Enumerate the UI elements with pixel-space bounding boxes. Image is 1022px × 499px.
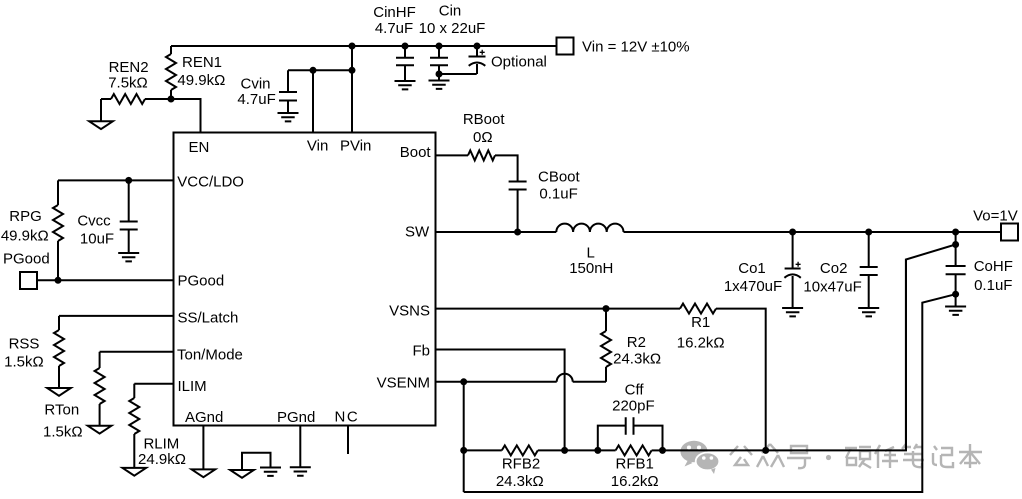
node: top rail / PVin: [349, 43, 356, 50]
terminal Vin: [557, 38, 574, 55]
wire: VSNS pin: [436, 308, 681, 310]
svg-text:1.5kΩ: 1.5kΩ: [4, 354, 44, 371]
node: Optional cap top: [474, 43, 481, 50]
wire: hop to R2 bottom: [573, 381, 606, 383]
svg-text:Cvcc: Cvcc: [77, 213, 111, 230]
capacitor Cff: [598, 417, 663, 450]
ground tie (AGnd-PGnd bracket): [230, 470, 254, 478]
svg-text:0.1uF: 0.1uF: [974, 277, 1012, 294]
svg-text:1x470uF: 1x470uF: [724, 278, 782, 295]
svg-text:SW: SW: [405, 224, 430, 241]
wire: Vin pin: [312, 70, 314, 132]
capacitor Co2: [868, 232, 870, 267]
node: Cin top: [436, 43, 443, 50]
watermark text (公众号·硬件笔记本 drawn as strokes): [730, 444, 982, 468]
svg-text:CinHF: CinHF: [373, 4, 416, 21]
node: Cvcc junction: [125, 177, 132, 184]
capacitor Cvin: [287, 70, 289, 92]
svg-text:AGnd: AGnd: [185, 409, 223, 426]
ground (Co1): [782, 308, 803, 316]
svg-text:PGood: PGood: [3, 251, 50, 268]
svg-text:Boot: Boot: [400, 144, 432, 161]
svg-text:VSNS: VSNS: [389, 303, 430, 320]
node: divider bottom-left: [460, 447, 467, 454]
svg-text:Vin = 12V ±10%: Vin = 12V ±10%: [582, 39, 690, 56]
svg-text:RLIM: RLIM: [143, 436, 179, 453]
svg-text:7.5kΩ: 7.5kΩ: [108, 75, 148, 92]
svg-text:Cin: Cin: [439, 3, 462, 20]
ground (Cin): [438, 74, 440, 81]
ground (Cvin): [278, 113, 299, 121]
node: Cin bottom junction: [436, 71, 443, 78]
ground (CoHF): [955, 294, 957, 306]
svg-text:24.3kΩ: 24.3kΩ: [613, 351, 661, 368]
node: Cff right: [659, 447, 666, 454]
svg-text:L: L: [587, 245, 595, 262]
wire: Vin top rail: [171, 45, 557, 47]
capacitor CinHF: [404, 46, 406, 58]
resistor RBoot: [468, 150, 495, 160]
ground (PGnd): [290, 467, 311, 475]
wire: VSENM pin: [436, 381, 557, 383]
node: EN junction: [168, 96, 175, 103]
svg-text:24.9kΩ: 24.9kΩ: [138, 451, 186, 468]
svg-text:VSENM: VSENM: [377, 375, 430, 392]
wire: Vo rail: [624, 231, 1002, 233]
svg-text:0Ω: 0Ω: [473, 129, 493, 146]
ground (Co2): [858, 308, 879, 316]
wire: ILIM pin: [134, 383, 173, 385]
node: Vo sense: [952, 229, 959, 236]
wire: Cin bottom to Optional cap: [439, 73, 477, 75]
resistor RLIM: [133, 384, 135, 398]
svg-text:49.9kΩ: 49.9kΩ: [1, 228, 49, 245]
wire: Ton/Mode pin: [100, 351, 174, 353]
wire: junction to EN pin: [171, 99, 201, 133]
svg-text:CoHF: CoHF: [974, 258, 1013, 275]
svg-text:REN1: REN1: [182, 54, 222, 71]
resistor R1: [680, 304, 716, 314]
svg-text:1.5kΩ: 1.5kΩ: [43, 424, 83, 441]
node: below Vo sense: [952, 241, 959, 248]
svg-text:10x47uF: 10x47uF: [803, 279, 861, 296]
node: CinHF top: [402, 43, 409, 50]
inductor L: [556, 224, 623, 232]
svg-text:R2: R2: [627, 334, 646, 351]
svg-text:EN: EN: [189, 139, 210, 156]
node: R1 bottom junction: [762, 447, 769, 454]
wire: Vo remote sense down: [906, 232, 956, 450]
svg-text:49.9kΩ: 49.9kΩ: [177, 72, 225, 89]
wire: [538, 449, 598, 451]
svg-text:Co2: Co2: [820, 260, 848, 277]
svg-text:4.7uF: 4.7uF: [375, 20, 413, 37]
ground (CinHF): [395, 81, 416, 89]
svg-text:R1: R1: [691, 314, 710, 331]
resistor RPG: [57, 180, 59, 205]
wire: PGood pin: [37, 279, 174, 281]
svg-text:RPG: RPG: [9, 208, 42, 225]
node: CoHF bottom: [952, 291, 959, 298]
svg-text:0.1uF: 0.1uF: [539, 186, 577, 203]
ground (AGnd, open triangle): [192, 469, 216, 477]
svg-text:Co1: Co1: [738, 260, 766, 277]
svg-text:Vin: Vin: [307, 138, 328, 155]
resistor RFB2: [502, 445, 538, 455]
svg-text:NC: NC: [335, 409, 360, 426]
wire: SS/Latch pin: [59, 315, 174, 317]
wire: AGnd pin: [202, 426, 204, 470]
wire: RBoot to CBoot: [495, 155, 518, 181]
capacitor CBoot: [509, 182, 527, 190]
svg-text:PGnd: PGnd: [277, 409, 315, 426]
terminal Vo: [1001, 224, 1018, 241]
terminal PGood: [20, 272, 37, 289]
node: Vin pin junction: [310, 67, 317, 74]
node: CBoot / SW junction: [514, 229, 521, 236]
capacitor Co1 (polarized): [792, 232, 794, 269]
svg-text:REN2: REN2: [109, 59, 149, 76]
node: VSENM junction: [460, 378, 467, 385]
wire: REN2 to ground: [100, 99, 102, 121]
node: Co1 top: [789, 229, 796, 236]
svg-text:Cvin: Cvin: [240, 76, 270, 93]
ground (REN2, open triangle): [89, 121, 113, 129]
resistor REN2: [145, 98, 171, 100]
svg-text:4.7uF: 4.7uF: [237, 91, 275, 108]
svg-text:Optional: Optional: [491, 54, 547, 71]
wire: VSENM down to sense return: [463, 382, 465, 492]
resistor R2: [605, 309, 607, 331]
svg-text:24.3kΩ: 24.3kΩ: [496, 473, 544, 490]
svg-text:Fb: Fb: [412, 342, 430, 359]
wire: SW pin: [436, 231, 557, 233]
resistor RFB1: [598, 449, 616, 451]
svg-text:RBoot: RBoot: [463, 111, 506, 128]
wire: NC stub: [347, 426, 349, 455]
svg-text:RSS: RSS: [9, 336, 40, 353]
node: Fb / RFB2 junction: [561, 447, 568, 454]
capacitor Cvcc: [128, 180, 130, 221]
svg-text:150nH: 150nH: [569, 260, 613, 277]
svg-text:Ton/Mode: Ton/Mode: [177, 347, 243, 364]
ground (RLIM, open triangle): [123, 468, 147, 476]
svg-text:RTon: RTon: [44, 402, 79, 419]
wire: VCC/LDO pin: [58, 179, 174, 181]
ground (RTon, open triangle): [88, 426, 112, 434]
wire: Fb pin down to divider: [436, 350, 565, 451]
wire: R1 to output sense: [716, 309, 766, 451]
wire: gnd remote sense down: [464, 294, 956, 492]
wire: Boot pin: [436, 154, 469, 156]
svg-text:SS/Latch: SS/Latch: [178, 310, 239, 327]
node: Cff left: [594, 447, 601, 454]
svg-text:10 x 22uF: 10 x 22uF: [419, 20, 486, 37]
resistor RSS: [58, 316, 60, 330]
node: RPG / PGood junction: [55, 277, 62, 284]
wire: [464, 449, 502, 451]
wire: Cvin to PVin: [288, 69, 352, 71]
wire: PVin pin: [351, 46, 353, 133]
svg-text:16.2kΩ: 16.2kΩ: [677, 335, 725, 352]
node: R2 top: [603, 305, 610, 312]
svg-text:PGood: PGood: [178, 273, 225, 290]
svg-text:10uF: 10uF: [80, 231, 114, 248]
wire: divider top to Vo sense: [663, 260, 907, 451]
svg-text:220pF: 220pF: [612, 398, 655, 415]
svg-text:ILIM: ILIM: [178, 378, 207, 395]
capacitor Optional (polarized): [476, 46, 478, 57]
capacitor Cin: [438, 46, 440, 58]
wire: PGnd pin: [299, 426, 301, 468]
op-amp U1 (converter IC body): [174, 133, 436, 426]
svg-text:Vo=1V: Vo=1V: [973, 208, 1018, 225]
resistor REN1: [170, 46, 172, 54]
svg-text:16.2kΩ: 16.2kΩ: [611, 473, 659, 490]
svg-text:Cff: Cff: [625, 382, 645, 399]
node: Co2 top: [865, 229, 872, 236]
svg-text:VCC/LDO: VCC/LDO: [177, 174, 244, 191]
resistor RTon: [99, 352, 101, 368]
svg-text:RFB1: RFB1: [616, 456, 654, 473]
capacitor CoHF: [955, 245, 957, 267]
ground (Cvcc): [118, 253, 139, 261]
node: PVin junction: [349, 67, 356, 74]
ground (RSS, open triangle): [47, 388, 71, 396]
svg-text:RFB2: RFB2: [502, 456, 540, 473]
watermark icon (wechat bubbles): [680, 441, 707, 467]
svg-text:CBoot: CBoot: [538, 169, 581, 186]
wire: VSENM hop over Fb: [557, 374, 573, 382]
svg-text:PVin: PVin: [340, 138, 371, 155]
